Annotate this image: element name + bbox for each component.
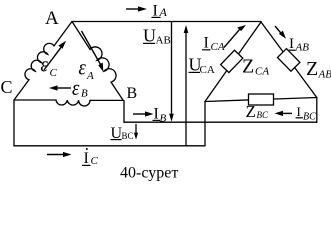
- svg-text:BC: BC: [303, 112, 316, 123]
- impedance ZBC box: [249, 94, 274, 105]
- emf arrow EA: [82, 31, 104, 72]
- label IBC: [296, 104, 317, 123]
- current arrow IC: [47, 152, 72, 157]
- label ZBC: [246, 102, 269, 121]
- voltage arrow UAB line: [171, 22, 173, 116]
- impedance ZAB box: [277, 49, 299, 72]
- svg-text:CA: CA: [211, 41, 225, 53]
- arrowhead UBC down: [134, 133, 138, 140]
- label UCA: [189, 55, 215, 77]
- label epsilon B: [72, 77, 88, 101]
- svg-text:CA: CA: [200, 64, 215, 76]
- voltage arrow UBC line: [135, 125, 137, 136]
- svg-text:Z: Z: [246, 102, 256, 121]
- label IC with dot: [82, 148, 99, 167]
- wire right triangle side AB: [261, 22, 317, 98]
- inductor coil EA: [90, 47, 116, 82]
- svg-text:I: I: [289, 36, 294, 52]
- label IA: [152, 2, 168, 19]
- svg-text:AB: AB: [318, 69, 331, 81]
- svg-text:B: B: [81, 88, 88, 100]
- label IB: [153, 106, 167, 125]
- label ZAB: [306, 58, 331, 81]
- wire right triangle bottom BC: [205, 98, 317, 102]
- impedance ZCA box: [221, 50, 243, 72]
- emf arrow EB: [49, 85, 71, 90]
- wire side C-A segments: [14, 22, 72, 101]
- svg-text:A: A: [159, 5, 168, 19]
- inductor coil EC: [25, 43, 54, 79]
- label epsilon C: [41, 53, 58, 79]
- svg-text:U: U: [143, 26, 156, 46]
- svg-text:40-сурет: 40-сурет: [120, 165, 178, 182]
- svg-text:I: I: [204, 35, 209, 52]
- svg-text:AB: AB: [156, 35, 171, 47]
- voltage arrow UCA line: [185, 30, 187, 146]
- current arrow IAB: [275, 26, 286, 39]
- current arrow ICA: [224, 25, 246, 48]
- svg-text:Z: Z: [242, 56, 254, 78]
- wire C bottom rail: [14, 145, 205, 147]
- current arrow IBC: [275, 111, 293, 116]
- arrowhead UAB down: [169, 114, 174, 122]
- label IAB: [288, 36, 310, 54]
- svg-text:Z: Z: [306, 58, 318, 80]
- wire right corner drop: [316, 98, 318, 123]
- svg-text:ε: ε: [72, 77, 80, 101]
- wire right triangle side CA: [205, 22, 261, 102]
- svg-text:C: C: [1, 77, 13, 97]
- svg-text:BC: BC: [257, 110, 269, 120]
- svg-text:C: C: [50, 67, 58, 79]
- wire B drop: [123, 101, 125, 123]
- svg-text:AB: AB: [295, 42, 310, 54]
- label ZCA: [242, 56, 269, 78]
- wire side C-B bottom segments: [14, 99, 123, 101]
- label ICA: [202, 35, 225, 54]
- svg-text:CA: CA: [255, 66, 269, 78]
- svg-text:I: I: [297, 104, 301, 119]
- wire BC rail: [124, 121, 317, 123]
- svg-text:A: A: [45, 8, 59, 29]
- current arrow IB: [133, 111, 154, 116]
- svg-text:B: B: [160, 113, 167, 125]
- wire C drop: [13, 100, 15, 146]
- svg-text:BC: BC: [122, 131, 134, 141]
- svg-text:C: C: [91, 155, 99, 167]
- inductor coil EB: [56, 100, 90, 106]
- wire side A-B segments: [72, 22, 123, 101]
- label UBC: [111, 125, 134, 142]
- svg-text:A: A: [86, 70, 94, 82]
- wire top A line: [72, 21, 261, 23]
- emf arrow EC: [44, 41, 66, 70]
- svg-text:B: B: [127, 85, 138, 102]
- svg-text:ε: ε: [41, 53, 49, 77]
- wire riser to right triangle left corner: [204, 102, 206, 146]
- arrowhead UCA up: [184, 25, 189, 33]
- svg-text:I: I: [84, 150, 89, 167]
- current arrow IA: [126, 6, 147, 11]
- label UAB: [143, 26, 171, 47]
- svg-text:ε: ε: [79, 56, 87, 80]
- label epsilon A: [79, 56, 95, 82]
